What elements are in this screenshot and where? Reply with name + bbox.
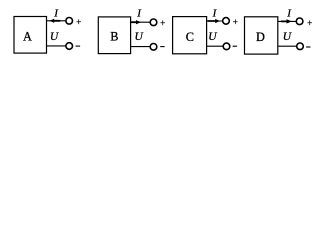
current arrow C (pointing right) [208,19,221,23]
svg-text:+: + [160,18,165,28]
polarity - (D) [306,46,310,48]
wire B bottom [130,46,150,48]
svg-text:I: I [286,8,292,20]
svg-text:+: + [233,17,238,27]
wire D bottom [278,45,297,47]
terminal D - circle [297,43,304,50]
svg-text:I: I [136,8,142,20]
wire C top [206,20,222,22]
svg-text:D: D [256,30,265,44]
terminal A + circle [66,18,73,25]
svg-text:U: U [135,31,144,43]
terminal D + circle [296,18,303,25]
terminal B + circle [150,19,157,26]
svg-text:C: C [186,30,194,44]
wire B top [130,21,150,23]
current arrow B (pointing right) [130,20,141,24]
element A box [14,17,47,54]
current arrow D (pointing right) [281,19,292,23]
wire A bottom [46,45,66,47]
polarity - (C) [233,45,238,47]
svg-text:U: U [283,31,292,43]
svg-text:B: B [110,30,118,44]
polarity - (B) [160,46,164,48]
svg-text:U: U [50,31,59,43]
svg-text:I: I [212,8,218,20]
terminal C + circle [223,18,230,25]
terminal A - circle [66,43,73,50]
wire A top [46,20,66,22]
svg-text:U: U [208,31,217,43]
svg-text:I: I [53,8,59,20]
svg-text:+: + [307,18,312,28]
element D box [245,17,278,54]
polarity - (A) [76,45,81,47]
current arrow A (pointing left) [49,19,60,23]
svg-text:+: + [76,17,81,27]
wire D top [278,20,297,22]
element B box [98,17,130,54]
wire C bottom [206,45,223,47]
element C box [173,17,207,54]
svg-text:A: A [23,30,32,44]
terminal C - circle [223,43,230,50]
terminal B - circle [150,44,157,51]
